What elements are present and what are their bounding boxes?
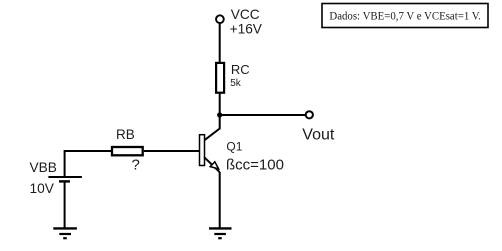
svg-text:+16V: +16V <box>230 22 263 37</box>
node VCC terminal <box>216 15 224 23</box>
svg-text:VCC: VCC <box>231 7 260 22</box>
note box Dados <box>322 4 488 28</box>
svg-text:RC: RC <box>231 62 250 77</box>
svg-text:ßcc=100: ßcc=100 <box>226 156 284 173</box>
wire VBB to ground <box>64 182 66 229</box>
resistor RB <box>112 147 143 155</box>
wire collector node to Vout <box>220 114 306 116</box>
svg-text:5k: 5k <box>230 78 242 89</box>
svg-text:10V: 10V <box>30 181 55 196</box>
svg-text:RB: RB <box>116 127 135 142</box>
wire VCC to RC <box>219 23 221 63</box>
ground (emitter) <box>209 228 232 238</box>
wire RB to VBB corner <box>65 151 112 177</box>
wire emitter to ground <box>219 172 221 228</box>
transistor Q1 <box>200 135 220 173</box>
svg-text:Q1: Q1 <box>226 139 242 153</box>
svg-text:VBB: VBB <box>30 160 57 175</box>
resistor RC <box>216 63 224 93</box>
ground (VBB) <box>53 228 77 238</box>
wire collector lead <box>205 115 220 140</box>
wire RC to collector node <box>219 93 221 115</box>
svg-text:Dados: VBE=0,7 V e VCEsat=1 V.: Dados: VBE=0,7 V e VCEsat=1 V. <box>329 9 481 23</box>
wire base <box>144 150 200 152</box>
node collector junction <box>217 112 222 117</box>
svg-text:Vout: Vout <box>302 126 335 143</box>
node Vout terminal <box>306 111 313 118</box>
battery VBB <box>48 177 82 181</box>
svg-text:?: ? <box>132 157 140 174</box>
